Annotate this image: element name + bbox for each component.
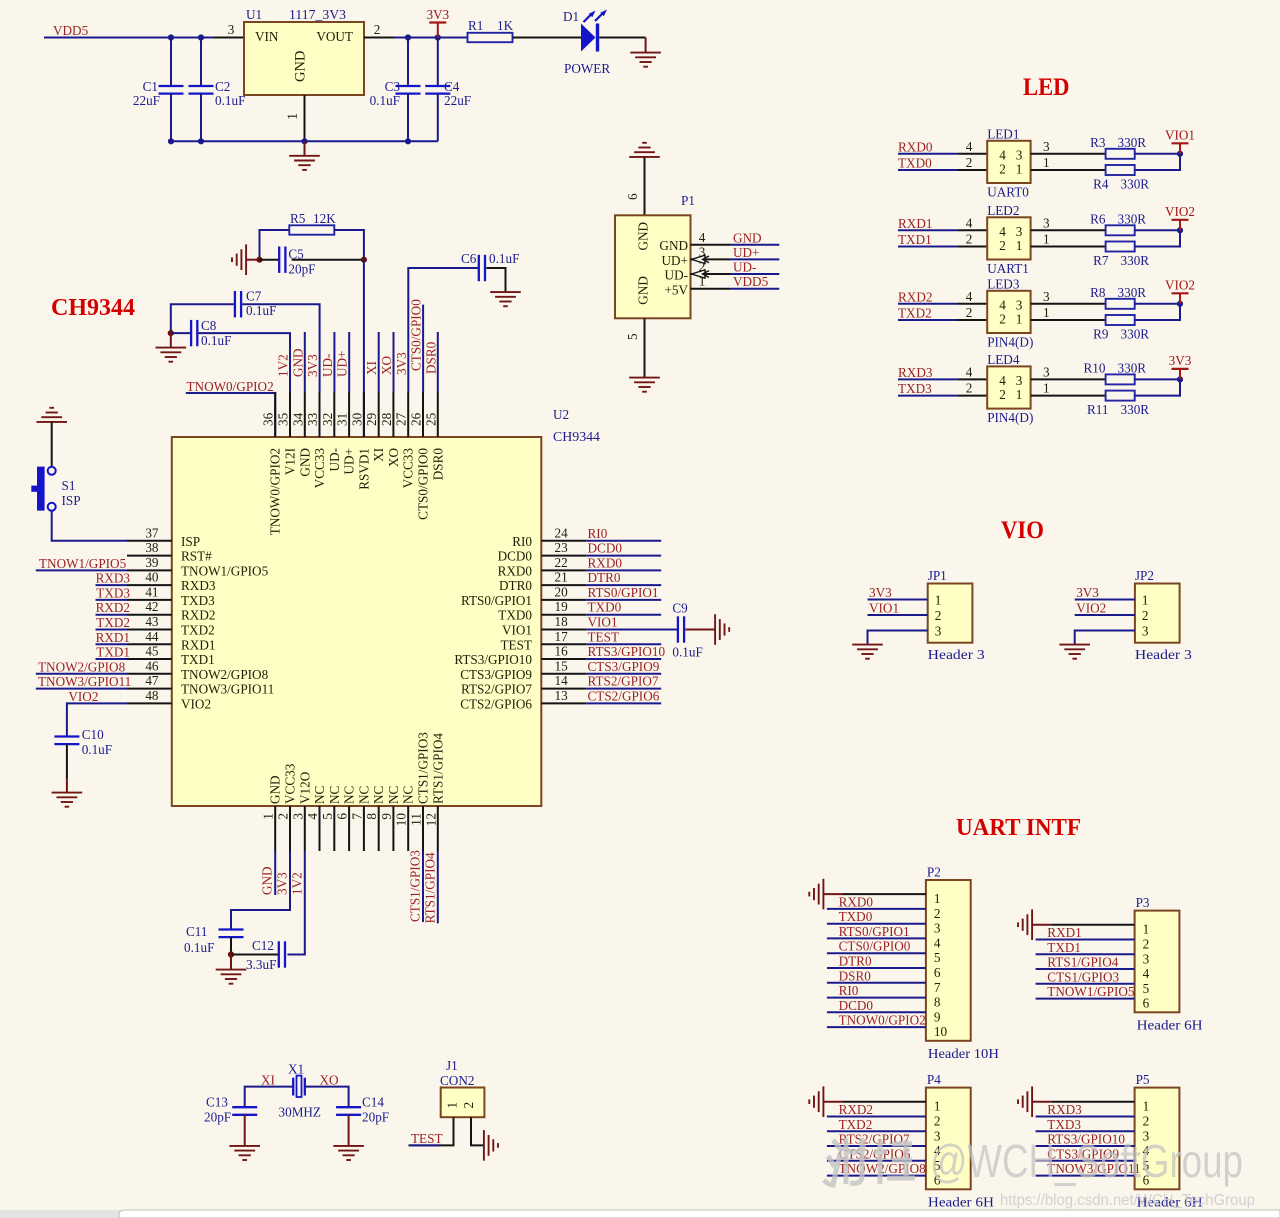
wire net DTR0	[586, 584, 661, 586]
svg-text:GND: GND	[260, 866, 275, 895]
svg-text:C4: C4	[444, 79, 460, 94]
svg-text:TXD1: TXD1	[96, 645, 130, 660]
svg-text:1: 1	[261, 813, 276, 820]
svg-text:RTS0/GPIO1: RTS0/GPIO1	[588, 585, 659, 600]
wire VIO1 to JP1	[868, 614, 928, 616]
svg-text:C3: C3	[385, 79, 401, 94]
svg-text:2: 2	[1143, 937, 1150, 952]
U2 right pin 14 stub	[541, 688, 586, 690]
svg-text:RTS2/GPIO7: RTS2/GPIO7	[461, 682, 532, 697]
wire LED2 to R6	[1061, 229, 1106, 231]
U2 left pin 45 stub	[127, 658, 172, 660]
svg-text:3: 3	[934, 921, 941, 936]
wire net RI0	[586, 540, 661, 542]
ground rail wire	[171, 140, 438, 142]
wire net TNOW2/GPIO8 to P4	[827, 1175, 926, 1177]
wire 1V2 pin35	[289, 333, 291, 392]
capacitor C7	[235, 291, 241, 317]
watermark CJK glyphs	[824, 1138, 915, 1185]
svg-text:LED4: LED4	[987, 352, 1020, 367]
ground lead C13	[244, 1115, 246, 1146]
svg-text:330R: 330R	[1118, 211, 1147, 226]
svg-text:23: 23	[555, 540, 569, 555]
svg-text:LED: LED	[1023, 72, 1070, 101]
svg-text:Header 3: Header 3	[928, 647, 985, 662]
svg-text:2: 2	[999, 238, 1006, 253]
svg-text:0.1uF: 0.1uF	[246, 303, 276, 318]
svg-text:3: 3	[1043, 289, 1050, 304]
wire gnd to C5	[260, 259, 280, 261]
svg-text:19: 19	[555, 599, 569, 614]
svg-text:22: 22	[555, 555, 568, 570]
wire C11 lower lead	[230, 937, 232, 954]
wire RXD2	[96, 614, 128, 616]
svg-text:@WCH_SoftGroup: @WCH_SoftGroup	[930, 1135, 1243, 1187]
svg-text:GND: GND	[297, 448, 312, 477]
capacitor C13	[232, 1107, 257, 1115]
wire C1 lower lead	[170, 94, 172, 142]
svg-text:17: 17	[555, 629, 569, 644]
capacitor C9	[678, 616, 684, 642]
svg-text:3: 3	[935, 624, 942, 639]
svg-text:3V3: 3V3	[1169, 353, 1192, 368]
resistor R5	[289, 225, 334, 234]
LED pack LED3 body	[987, 291, 1030, 333]
svg-text:4: 4	[1143, 966, 1150, 981]
junction rail/C3	[405, 138, 411, 144]
svg-text:4: 4	[934, 935, 941, 950]
wire net DCD0 to P2	[827, 1011, 926, 1013]
svg-text:5: 5	[1143, 981, 1150, 996]
wire C1 upper lead	[170, 38, 172, 87]
wire R1 to D1	[513, 37, 582, 39]
svg-text:UART INTF: UART INTF	[956, 814, 1081, 841]
wire C8 right to pin35	[198, 333, 290, 392]
svg-text:3: 3	[1016, 373, 1023, 388]
ground symbol above S1	[36, 408, 67, 422]
svg-text:XI: XI	[371, 448, 386, 462]
svg-text:GND: GND	[293, 51, 309, 82]
U2 top pin 26 stub	[422, 392, 424, 437]
svg-text:330R: 330R	[1121, 327, 1150, 342]
svg-text:3V3: 3V3	[394, 352, 409, 375]
LED1 pin2 stub	[958, 169, 987, 171]
svg-text:DSR0: DSR0	[839, 968, 872, 983]
svg-text:2: 2	[999, 162, 1006, 177]
svg-text:TNOW1/GPIO5: TNOW1/GPIO5	[39, 556, 127, 571]
svg-text:4: 4	[699, 230, 706, 245]
ground symbol under C11	[216, 970, 247, 984]
wire V12O pin3 to C12	[287, 851, 304, 955]
svg-text:DSR0: DSR0	[423, 341, 438, 374]
U2 top pin 29 stub	[378, 392, 380, 437]
svg-text:1: 1	[1043, 381, 1050, 396]
svg-text:2: 2	[966, 232, 973, 247]
svg-text:38: 38	[145, 540, 159, 555]
svg-text:TXD0: TXD0	[898, 156, 932, 171]
junction R10/R11	[1177, 376, 1183, 382]
wire LED4 to R11	[1061, 395, 1106, 397]
svg-text:RTS3/GPIO10: RTS3/GPIO10	[454, 652, 532, 667]
wire VIO2 to JP2	[1075, 614, 1135, 616]
svg-text:2: 2	[934, 1114, 941, 1129]
svg-text:3.3uF: 3.3uF	[246, 957, 276, 972]
svg-text:2: 2	[935, 608, 942, 623]
wire R7 to power corner	[1135, 230, 1180, 246]
svg-text:14: 14	[555, 673, 569, 688]
wire net RTS1/GPIO4 to P3	[1036, 968, 1135, 970]
U2 right pin 24 stub	[541, 540, 586, 542]
svg-text:4: 4	[966, 139, 973, 154]
svg-text:1K: 1K	[497, 18, 514, 33]
wire net RXD0 to P2	[827, 908, 926, 910]
LED pack LED1 body	[987, 141, 1030, 183]
svg-text:0.1uF: 0.1uF	[672, 645, 702, 660]
svg-text:VIO2: VIO2	[181, 696, 211, 711]
wire net RXD0	[586, 569, 661, 571]
U2 right pin 17 stub	[541, 643, 586, 645]
LED3 pin3 stub	[1031, 303, 1061, 305]
svg-text:NC: NC	[356, 785, 371, 804]
wire net CTS2/GPIO6	[586, 702, 661, 704]
svg-text:GND: GND	[290, 348, 305, 377]
svg-text:45: 45	[145, 644, 159, 659]
wire R9 to power corner	[1135, 304, 1180, 320]
wire XO crystal right	[305, 1087, 349, 1108]
svg-text:44: 44	[145, 629, 159, 644]
svg-text:4: 4	[999, 297, 1006, 312]
svg-text:3: 3	[1016, 147, 1023, 162]
wire CTS1/GPIO3 pin11	[422, 851, 424, 922]
header JP2 body	[1135, 584, 1180, 643]
svg-text:JP1: JP1	[928, 568, 947, 583]
svg-text:30: 30	[349, 412, 364, 426]
U2 right pin 15 stub	[541, 673, 586, 675]
svg-text:R10: R10	[1084, 360, 1106, 375]
ground symbol under U1	[289, 141, 320, 170]
svg-text:1: 1	[1142, 593, 1149, 608]
svg-text:48: 48	[145, 688, 159, 703]
capacitor C11	[219, 930, 244, 938]
svg-text:XI: XI	[364, 361, 379, 375]
U2 left pin 47 stub	[127, 688, 172, 690]
wire R5 right lead	[334, 230, 364, 260]
svg-text:6: 6	[625, 193, 640, 200]
ground symbol under C6	[490, 292, 521, 306]
wire R5 left lead	[260, 230, 290, 260]
ground lead P3	[1032, 924, 1052, 926]
svg-text:NC: NC	[327, 785, 342, 804]
wire TEST under label	[409, 1144, 440, 1146]
ground symbol right of D1	[630, 53, 661, 67]
resistor R6	[1106, 225, 1135, 235]
svg-text:TXD3: TXD3	[1047, 1117, 1081, 1132]
svg-text:TNOW0/GPIO2: TNOW0/GPIO2	[839, 1013, 926, 1028]
ground symbol under C8	[156, 348, 187, 362]
connector P1 body	[615, 215, 691, 318]
svg-text:TNOW0/GPIO2: TNOW0/GPIO2	[187, 379, 274, 394]
wire net CTS0/GPIO0 to P2	[827, 952, 926, 954]
wire C3 upper lead	[407, 38, 409, 87]
header P3 body	[1135, 911, 1180, 1013]
svg-text:2: 2	[276, 813, 291, 820]
junction R3/R4	[1177, 151, 1183, 157]
switch S1	[31, 467, 55, 511]
header JP1 body	[928, 584, 973, 643]
U1 GND pin stub	[304, 95, 306, 141]
svg-text:RTS1/GPIO4: RTS1/GPIO4	[430, 733, 445, 804]
svg-text:7: 7	[349, 813, 364, 820]
resistor R10	[1106, 374, 1135, 384]
svg-text:TXD2: TXD2	[181, 623, 215, 638]
svg-text:CTS3/GPIO9: CTS3/GPIO9	[460, 667, 532, 682]
svg-text:22uF: 22uF	[444, 93, 471, 108]
wire R3 to power	[1135, 153, 1180, 155]
U2 top pin 25 stub	[437, 392, 439, 437]
svg-text:+5V: +5V	[664, 283, 688, 298]
junction R6/R7	[1177, 227, 1183, 233]
wire P4 pin1	[843, 1101, 926, 1103]
svg-text:0.1uF: 0.1uF	[82, 742, 112, 757]
LED D1 symbol	[581, 10, 607, 52]
wire net TNOW3/GPIO11 to P5	[1036, 1175, 1135, 1177]
svg-text:R5: R5	[290, 211, 306, 226]
wire LED3 to R8	[1061, 303, 1106, 305]
wire TNOW2/GPIO8	[36, 673, 127, 675]
svg-text:1: 1	[1016, 312, 1023, 327]
svg-text:RXD3: RXD3	[96, 571, 131, 586]
svg-text:CH9344: CH9344	[553, 429, 600, 444]
wire R10 to power	[1135, 378, 1180, 380]
svg-text:R9: R9	[1093, 327, 1109, 342]
svg-text:25: 25	[423, 412, 438, 426]
capacitor C10	[54, 737, 79, 745]
svg-text:18: 18	[555, 614, 569, 629]
power symbol VIO1 at LED1	[1165, 127, 1195, 154]
svg-text:VDD5: VDD5	[53, 23, 89, 38]
svg-text:TNOW2/GPIO8: TNOW2/GPIO8	[181, 667, 269, 682]
capacitor C14	[336, 1107, 361, 1115]
wire JP1 pin3 to gnd	[868, 631, 928, 645]
svg-text:RXD2: RXD2	[839, 1102, 873, 1117]
wire net CTS2/GPIO6 to P4	[827, 1160, 926, 1162]
svg-text:RXD0: RXD0	[588, 555, 623, 570]
svg-text:10: 10	[934, 1024, 948, 1039]
svg-text:20pF: 20pF	[288, 262, 315, 277]
U2 right pin 20 stub	[541, 599, 586, 601]
svg-text:U1: U1	[246, 7, 262, 22]
svg-text:UD+: UD+	[342, 448, 357, 475]
svg-text:ISP: ISP	[62, 493, 81, 508]
svg-text:15: 15	[555, 658, 569, 673]
wire TXD2	[96, 629, 128, 631]
svg-text:TEST: TEST	[411, 1131, 443, 1146]
svg-text:NC: NC	[342, 785, 357, 804]
svg-text:TXD0: TXD0	[498, 608, 532, 623]
wire VDD5 to VIN	[44, 37, 214, 39]
svg-text:VIO2: VIO2	[1165, 204, 1195, 219]
svg-text:1: 1	[1016, 238, 1023, 253]
capacitor C2	[189, 86, 214, 94]
wire GND pin1	[274, 851, 276, 895]
svg-text:1: 1	[934, 1099, 941, 1114]
wire C5 to RSVD1 column	[292, 259, 364, 261]
svg-text:11: 11	[409, 813, 424, 826]
svg-text:8: 8	[364, 813, 379, 820]
svg-text:DSR0: DSR0	[430, 448, 445, 481]
ground symbol at P4 pin1	[809, 1086, 823, 1117]
wire C2 upper lead	[200, 38, 202, 87]
svg-text:TNOW3/GPIO11: TNOW3/GPIO11	[181, 682, 274, 697]
svg-text:VIO2: VIO2	[1165, 277, 1195, 292]
svg-text:RXD2: RXD2	[898, 289, 932, 304]
wire C3 lower lead	[407, 94, 409, 142]
wire net TXD0 to P2	[827, 923, 926, 925]
svg-text:P2: P2	[927, 865, 941, 880]
svg-text:2: 2	[1142, 608, 1149, 623]
wire RXD3 to LED4	[898, 378, 958, 380]
svg-text:3: 3	[290, 813, 305, 820]
wire J1 pin2	[471, 1117, 484, 1145]
capacitor C8	[191, 320, 197, 346]
svg-text:R8: R8	[1090, 285, 1106, 300]
svg-text:36: 36	[261, 412, 276, 426]
LED2 pin4 stub	[958, 229, 987, 231]
wire net UD- P1	[730, 273, 779, 275]
capacitor C1	[159, 86, 184, 94]
svg-text:TXD2: TXD2	[898, 306, 932, 321]
svg-text:TXD3: TXD3	[96, 585, 130, 600]
svg-text:VOUT: VOUT	[316, 29, 353, 44]
svg-text:6: 6	[1143, 996, 1150, 1011]
U2 bottom pin 7 stub	[363, 806, 365, 851]
svg-text:28: 28	[379, 412, 394, 426]
U2 bottom pin 6 stub	[348, 806, 350, 851]
svg-text:RTS2/GPIO7: RTS2/GPIO7	[588, 674, 659, 689]
ground symbol at P3 pin1	[1018, 909, 1032, 940]
svg-text:CH9344: CH9344	[51, 295, 135, 321]
U2 top pin 36 stub	[274, 392, 276, 437]
svg-text:XO: XO	[386, 448, 401, 467]
svg-text:TXD2: TXD2	[96, 615, 130, 630]
svg-text:UD+: UD+	[335, 351, 350, 378]
svg-text:4: 4	[966, 215, 973, 230]
svg-text:D1: D1	[563, 9, 579, 24]
svg-text:V12I: V12I	[283, 448, 298, 475]
svg-text:30MHZ: 30MHZ	[279, 1105, 322, 1120]
svg-text:Header 3: Header 3	[1135, 647, 1192, 662]
capacitor C4	[425, 86, 450, 94]
wire LED1 to R3	[1061, 153, 1106, 155]
P1 pin 1 wire	[691, 288, 731, 290]
svg-text:C7: C7	[246, 289, 262, 304]
svg-text:R7: R7	[1093, 253, 1109, 268]
power symbol 3V3 top	[426, 7, 449, 38]
wire VIO1 to C9	[586, 629, 677, 631]
svg-text:CTS0/GPIO0: CTS0/GPIO0	[409, 299, 424, 371]
svg-text:R4: R4	[1093, 177, 1109, 192]
P1 pin direction arrow	[692, 270, 710, 278]
svg-text:DTR0: DTR0	[499, 578, 532, 593]
ground lead C9	[686, 629, 716, 631]
svg-text:VCC33: VCC33	[283, 763, 298, 804]
wire R8 to power	[1135, 303, 1180, 305]
svg-text:33: 33	[305, 412, 320, 426]
wire LED1 to R4	[1061, 169, 1106, 171]
svg-text:GND: GND	[636, 222, 651, 251]
crystal X1 symbol	[293, 1076, 305, 1097]
svg-text:TXD3: TXD3	[181, 593, 215, 608]
svg-text:TXD1: TXD1	[1047, 940, 1081, 955]
P1 pin 2 wire	[691, 273, 731, 275]
capacitor C12	[279, 941, 285, 967]
svg-text:12: 12	[423, 813, 438, 826]
svg-text:P5: P5	[1136, 1072, 1150, 1087]
svg-text:VIN: VIN	[255, 29, 279, 44]
svg-text:CON2: CON2	[440, 1073, 474, 1088]
ground lead P2	[824, 893, 844, 895]
svg-text:Header 6H: Header 6H	[928, 1194, 995, 1209]
wire UD+ pin31	[348, 332, 350, 392]
svg-text:46: 46	[145, 658, 159, 673]
svg-text:35: 35	[276, 412, 291, 426]
svg-text:PIN4(D): PIN4(D)	[987, 335, 1033, 350]
svg-text:26: 26	[409, 412, 424, 426]
svg-text:Header 10H: Header 10H	[928, 1046, 1000, 1061]
junction VDD5/C2	[198, 34, 204, 40]
U2 left pin 41 stub	[127, 599, 172, 601]
wire VIO2 to C10	[67, 703, 127, 736]
wire net TXD0	[586, 614, 661, 616]
svg-text:16: 16	[555, 644, 569, 659]
wire RTS1/GPIO4 pin12	[437, 851, 439, 923]
power symbol VIO2 at LED3	[1165, 277, 1195, 304]
ground lead C11	[230, 955, 232, 970]
header P2 body	[926, 880, 971, 1041]
svg-text:3V3: 3V3	[305, 354, 320, 377]
wire net RTS0/GPIO1 to P2	[827, 937, 926, 939]
wire RXD2 to LED3	[898, 303, 958, 305]
svg-text:https://blog.csdn.net/WCH_Tech: https://blog.csdn.net/WCH_TechGroup	[1000, 1192, 1255, 1209]
svg-text:RST#: RST#	[181, 549, 212, 564]
junction VDD5/C1	[168, 34, 174, 40]
wire R6 to power	[1135, 229, 1180, 231]
svg-text:2: 2	[966, 305, 973, 320]
svg-text:3V3: 3V3	[1076, 585, 1099, 600]
svg-text:0.1uF: 0.1uF	[215, 93, 245, 108]
svg-text:20pF: 20pF	[204, 1110, 231, 1125]
svg-text:UART0: UART0	[987, 185, 1029, 200]
svg-text:TXD0: TXD0	[588, 600, 622, 615]
wire JP2 pin3 to gnd	[1075, 631, 1135, 645]
svg-text:3V3: 3V3	[426, 7, 449, 22]
svg-text:21: 21	[555, 570, 568, 585]
svg-text:S1: S1	[62, 478, 76, 493]
svg-text:0.1uF: 0.1uF	[370, 93, 400, 108]
wire P1 pin6	[644, 157, 646, 215]
svg-text:UD-: UD-	[327, 448, 342, 471]
svg-text:RTS0/GPIO1: RTS0/GPIO1	[461, 593, 532, 608]
U2 bottom pin 12 stub	[437, 806, 439, 851]
LED4 pin2 stub	[958, 395, 987, 397]
resistor R1	[468, 33, 513, 42]
wire DSR0 pin25	[437, 332, 439, 392]
resistor R9	[1106, 315, 1135, 325]
svg-text:1117_3V3: 1117_3V3	[289, 7, 346, 22]
P1 pin 3 wire	[691, 258, 731, 260]
regulator U1 body	[244, 22, 364, 95]
wire R11 to power corner	[1135, 379, 1180, 395]
